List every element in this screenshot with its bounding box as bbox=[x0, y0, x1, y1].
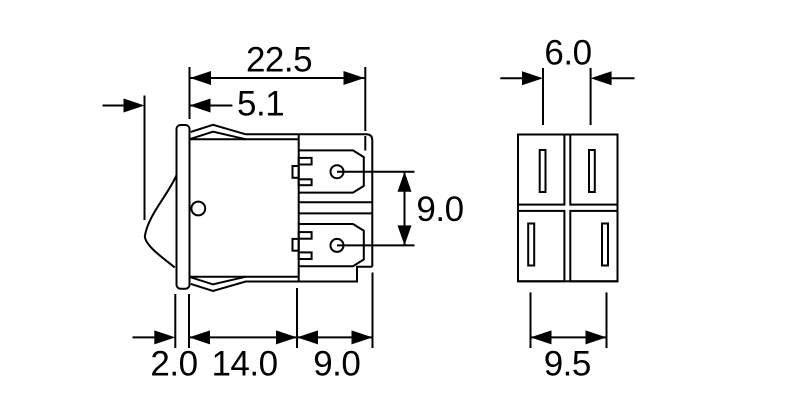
extension line flange front face bottom bbox=[174, 294, 176, 348]
dimension 9.0 bottom line bbox=[297, 336, 373, 338]
extension line flange rear face bbox=[189, 67, 191, 119]
extension line housing rear bottom bbox=[372, 273, 374, 349]
extension line slot TL center bbox=[542, 68, 544, 125]
extension line flange rear face bottom bbox=[188, 294, 190, 348]
extension line slot BR center bbox=[606, 292, 608, 348]
extension line slot BL center bbox=[530, 292, 532, 348]
rocker actuator arc bbox=[145, 175, 177, 267]
pointer arrow to rocker front bbox=[103, 105, 126, 107]
svg-text:22.5: 22.5 bbox=[246, 41, 312, 80]
svg-text:2.0: 2.0 bbox=[150, 345, 197, 384]
terminal 2 left lug bbox=[293, 239, 299, 251]
flange (bezel) bbox=[177, 125, 190, 289]
dimension 6.0 left arrow bbox=[500, 77, 523, 79]
rear view outer body outline bbox=[518, 135, 618, 282]
rear view quadrant top-right bbox=[570, 135, 617, 205]
extension line blade tips bbox=[364, 67, 366, 131]
extension line housing front bottom bbox=[296, 288, 298, 348]
terminal slot top-left bbox=[540, 150, 546, 192]
dimension 6.0 right arrow bbox=[610, 77, 635, 79]
rib lines between terminals bbox=[299, 201, 373, 203]
terminal slot bottom-left bbox=[528, 224, 534, 266]
svg-text:9.5: 9.5 bbox=[544, 345, 591, 384]
svg-text:6.0: 6.0 bbox=[544, 34, 591, 73]
dimension 14.0 line bbox=[189, 336, 297, 338]
extension line slot TR center bbox=[590, 68, 592, 125]
terminal 2 lower tab bbox=[299, 252, 312, 259]
terminal 2 (lower faston) outline bbox=[299, 224, 364, 266]
rear view quadrant bottom-right bbox=[570, 211, 617, 281]
rear view quadrant bottom-left bbox=[518, 211, 564, 281]
extension line rocker front face bbox=[144, 96, 146, 221]
dimension 2.0 arrow bbox=[133, 336, 156, 338]
top mounting wing inner line bbox=[191, 132, 246, 140]
dimension 22.5 line bbox=[190, 77, 365, 79]
terminal 1 (upper faston) outline bbox=[299, 150, 364, 192]
terminal 2 hole bbox=[331, 239, 344, 252]
svg-text:9.0: 9.0 bbox=[313, 345, 360, 384]
body bottom edge bbox=[191, 276, 299, 278]
body top edge bbox=[191, 138, 299, 140]
svg-text:5.1: 5.1 bbox=[237, 85, 284, 124]
dimension 9.0 vertical line bbox=[404, 172, 406, 246]
terminal 1 left lug bbox=[293, 166, 299, 178]
dimension 9.5 line bbox=[531, 336, 607, 338]
top mounting wing outer line + housing top + right edge bbox=[191, 125, 372, 267]
bottom mounting wing inner line bbox=[191, 277, 246, 285]
rear view quadrant top-left bbox=[518, 135, 564, 205]
terminal slot top-right bbox=[589, 150, 595, 192]
terminal slot bottom-right bbox=[602, 224, 608, 266]
dimension 5.1 arrow and line bbox=[190, 105, 233, 107]
bottom mounting wing outer line + housing bottom step bbox=[191, 267, 372, 291]
extension line terminal 1 center bbox=[337, 171, 415, 173]
terminal 1 lower tab bbox=[299, 179, 312, 185]
svg-text:14.0: 14.0 bbox=[211, 345, 277, 384]
housing step vertical bbox=[298, 134, 300, 281]
extension line terminal 2 center bbox=[337, 244, 415, 246]
svg-text:9.0: 9.0 bbox=[416, 190, 463, 229]
terminal 1 hole bbox=[331, 165, 344, 178]
terminal 2 upper tab bbox=[299, 232, 312, 239]
terminal 1 upper tab bbox=[299, 158, 312, 165]
pivot pin circle bbox=[191, 202, 205, 216]
